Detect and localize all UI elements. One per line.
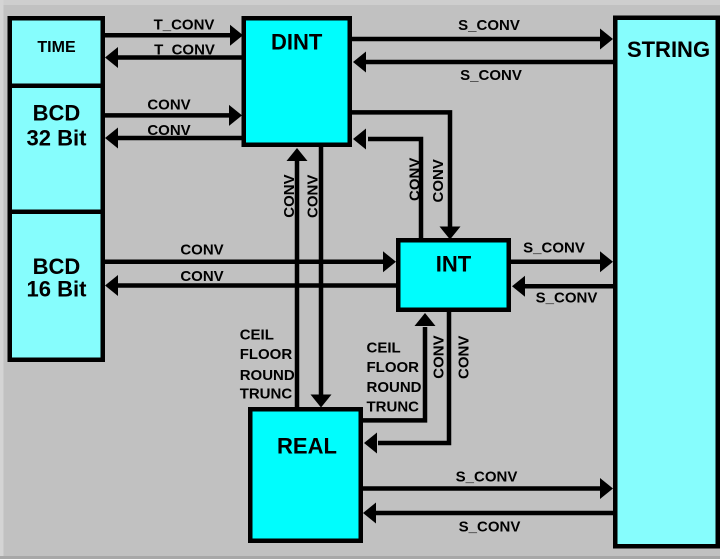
arrowhead into REAL right (S_CONV from STRING) <box>363 503 376 524</box>
svg-text:CONV: CONV <box>456 336 473 379</box>
box DINT <box>244 18 350 145</box>
arrowhead into DINT right (CONV from INT) <box>353 129 366 150</box>
arrowhead into BCD16 right (CONV) <box>105 275 118 296</box>
wire CEIL/FLOOR/ROUND/TRUNC REAL to INT elbow <box>361 327 425 420</box>
svg-text:CONV: CONV <box>430 159 447 202</box>
svg-text:ROUND: ROUND <box>367 379 422 396</box>
svg-text:DINT: DINT <box>271 29 323 54</box>
svg-text:STRING: STRING <box>627 37 710 62</box>
wire T_CONV TIME to DINT <box>103 33 232 38</box>
wire S_CONV STRING to REAL <box>375 511 614 516</box>
arrowhead into DINT right (S_CONV from STRING) <box>353 52 366 73</box>
wire S_CONV DINT to STRING <box>351 37 602 42</box>
svg-text:BCD: BCD <box>33 254 81 279</box>
arrowhead into STRING left (S_CONV from INT) <box>600 251 613 272</box>
svg-text:S_CONV: S_CONV <box>456 469 518 486</box>
svg-text:T_CONV: T_CONV <box>154 41 215 58</box>
svg-text:S_CONV: S_CONV <box>459 519 521 536</box>
svg-text:FLOOR: FLOOR <box>367 359 420 376</box>
arrowhead into TIME right (T_CONV) <box>105 47 118 68</box>
wire S_CONV INT to STRING <box>510 260 602 265</box>
svg-text:FLOOR: FLOOR <box>240 346 293 363</box>
wire S_CONV REAL to STRING <box>361 486 602 491</box>
arrowhead into INT bottom (from REAL) <box>415 313 436 326</box>
arrowhead into REAL top (CONV from DINT) <box>311 395 332 408</box>
svg-text:CONV: CONV <box>305 175 322 218</box>
svg-text:BCD: BCD <box>33 101 81 126</box>
top highlight strip <box>0 0 720 5</box>
svg-text:CEIL: CEIL <box>367 340 401 357</box>
arrowhead into STRING left (S_CONV from DINT) <box>600 29 613 50</box>
svg-text:T_CONV: T_CONV <box>154 17 215 34</box>
arrowhead into STRING left (S_CONV from REAL) <box>600 478 613 499</box>
wire CONV BCD16 to INT <box>103 260 385 265</box>
svg-text:CONV: CONV <box>147 96 190 113</box>
svg-text:CONV: CONV <box>147 122 190 139</box>
bottom shadow strip <box>0 556 720 559</box>
box BCD 32 Bit <box>10 86 103 212</box>
wire T_CONV DINT to TIME <box>115 55 244 60</box>
wire CONV DINT to INT elbow <box>351 112 450 228</box>
arrowhead into DINT bottom (CONV from REAL) <box>287 148 308 161</box>
svg-text:CONV: CONV <box>281 174 298 217</box>
svg-text:CONV: CONV <box>180 268 223 285</box>
svg-text:16 Bit: 16 Bit <box>27 277 88 302</box>
wire CONV REAL to DINT vertical <box>295 161 300 409</box>
arrowhead into REAL right (CONV from INT) <box>364 433 377 454</box>
wire CONV INT to REAL elbow <box>378 311 449 443</box>
svg-text:TRUNC: TRUNC <box>240 386 293 403</box>
wire S_CONV STRING to INT <box>524 284 614 289</box>
wire CONV INT to DINT elbow <box>368 139 421 240</box>
left highlight strip <box>0 0 4 559</box>
svg-text:S_CONV: S_CONV <box>460 67 522 84</box>
wire CONV DINT to REAL vertical <box>319 145 324 395</box>
svg-text:TRUNC: TRUNC <box>367 398 420 415</box>
arrowhead into INT top (CONV from DINT) <box>440 227 461 240</box>
svg-text:S_CONV: S_CONV <box>523 240 585 257</box>
svg-text:32 Bit: 32 Bit <box>27 126 88 151</box>
svg-text:INT: INT <box>436 251 472 276</box>
arrowhead into DINT left (T_CONV) <box>230 25 243 46</box>
arrowhead into INT right (S_CONV from STRING) <box>512 276 525 297</box>
wire CONV DINT to BCD32 <box>115 136 244 141</box>
box INT <box>398 240 509 310</box>
box TIME <box>10 18 103 86</box>
wire CONV INT to BCD16 <box>115 283 397 288</box>
arrowhead into DINT left (CONV) <box>229 105 242 126</box>
arrowhead into INT left (CONV) <box>383 251 396 272</box>
svg-text:ROUND: ROUND <box>240 367 295 384</box>
svg-text:REAL: REAL <box>277 434 337 459</box>
svg-text:CEIL: CEIL <box>240 327 274 344</box>
svg-text:CONV: CONV <box>431 335 448 378</box>
svg-text:S_CONV: S_CONV <box>536 289 598 306</box>
box REAL <box>250 409 361 541</box>
arrowhead into BCD32 right (CONV) <box>105 128 118 149</box>
svg-text:CONV: CONV <box>407 158 424 201</box>
wire CONV BCD32 to DINT <box>103 113 231 118</box>
box BCD 16 Bit <box>10 212 103 360</box>
svg-text:S_CONV: S_CONV <box>458 17 520 34</box>
svg-text:CONV: CONV <box>180 242 223 259</box>
wire S_CONV STRING to DINT <box>365 60 614 65</box>
box STRING <box>615 18 718 547</box>
svg-text:TIME: TIME <box>37 39 76 56</box>
